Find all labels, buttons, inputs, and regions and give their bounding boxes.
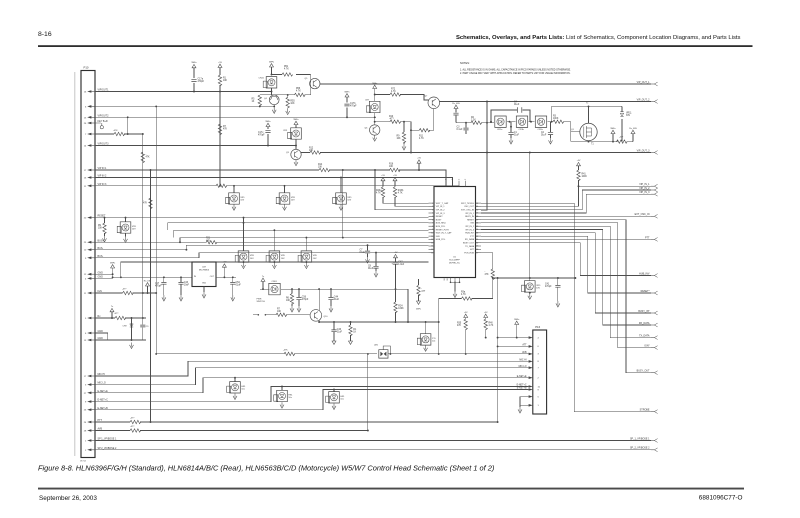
svg-text:100K: 100K [582,176,588,178]
svg-text:BUSY_OUT: BUSY_OUT [463,243,475,245]
svg-text:19: 19 [476,246,478,248]
svg-text:BUSY_IN: BUSY_IN [465,216,474,218]
svg-text:32: 32 [476,203,478,205]
svg-text:1.0uF: 1.0uF [398,264,404,266]
svg-text:0.1uF: 0.1uF [457,129,463,131]
svg-text:Figure 8-8. HLN6396F/G/H (Stan: Figure 8-8. HLN6396F/G/H (Standard), HLN… [38,463,495,472]
svg-text:+5V: +5V [218,62,222,64]
svg-text:RX_DATA: RX_DATA [465,238,475,241]
svg-text:3: 3 [432,209,433,211]
svg-text:4.7K: 4.7K [489,325,494,327]
svg-text:01uF: 01uF [514,104,520,106]
svg-text:VIP_IN_1: VIP_IN_1 [436,206,446,208]
svg-text:GND: GND [98,276,104,279]
svg-text:MIC HI: MIC HI [519,360,527,362]
svg-text:8-16: 8-16 [38,31,52,38]
svg-text:20: 20 [476,242,478,244]
svg-text:AVB: AVB [522,351,527,354]
svg-text:GND: GND [98,337,104,340]
svg-text:TX_DATA: TX_DATA [465,245,475,248]
svg-text:VIP/OUT1: VIP/OUT1 [98,89,110,92]
svg-text:17: 17 [476,252,478,254]
svg-text:-47?: -47? [389,119,394,121]
svg-text:VIP_IN_3: VIP_IN_3 [465,229,475,231]
svg-text:IGN: IGN [436,236,440,238]
svg-text:WDT_TICKLE: WDT_TICKLE [461,203,475,205]
svg-text:1K: 1K [353,332,356,334]
svg-text:RESET_FLTR: RESET_FLTR [436,229,449,231]
svg-text:01uF: 01uF [368,268,374,270]
svg-text:Rx_IGN: Rx_IGN [629,128,637,130]
svg-text:IGN: IGN [98,290,103,293]
svg-text:E-NET+C: E-NET+C [98,399,109,402]
svg-text:25: 25 [476,226,478,228]
svg-text:10V: 10V [313,258,317,260]
svg-text:4.7K: 4.7K [296,91,301,93]
svg-text:VIP_IN_3: VIP_IN_3 [639,191,650,194]
svg-text:6881096C77-O: 6881096C77-O [699,494,743,501]
svg-text:HUB_INT: HUB_INT [465,233,475,235]
svg-text:10V: 10V [240,200,244,202]
svg-text:VIP_IN_1: VIP_IN_1 [639,183,650,186]
svg-text:CR41: CR41 [259,78,265,80]
svg-text:GND: GND [98,271,104,274]
svg-text:14: 14 [431,246,433,248]
svg-text:BUSY_IN*: BUSY_IN* [638,310,649,313]
svg-text:01uF: 01uF [334,299,340,301]
svg-text:SC1449FP: SC1449FP [449,260,460,262]
svg-text:10K: 10K [98,228,103,230]
svg-text:2.2K: 2.2K [471,120,476,122]
svg-text:47K: 47K [146,157,151,159]
svg-text:29: 29 [476,213,478,215]
svg-text:47K: 47K [223,129,228,131]
svg-text:10K: 10K [286,300,291,302]
svg-text:13: 13 [431,242,433,244]
svg-text:CR1a: CR1a [497,129,503,131]
svg-text:4.7K: 4.7K [376,193,381,195]
svg-text:8: 8 [432,226,433,228]
svg-text:VIP_OUT_1: VIP_OUT_1 [637,81,651,84]
svg-text:5MFx: 5MFx [416,309,421,311]
svg-text:SP_1_VF/BOSE 1: SP_1_VF/BOSE 1 [630,437,650,440]
svg-text:RX_DATA: RX_DATA [639,322,650,325]
svg-text:IGN*: IGN* [644,345,649,348]
svg-text:SP 1_VF/BOSE 1: SP 1_VF/BOSE 1 [98,438,117,441]
svg-text:BUS-: BUS- [98,255,104,258]
svg-text:BUS-: BUS- [98,247,104,250]
svg-text:11: 11 [431,236,433,238]
svg-text:10K: 10K [309,150,314,152]
svg-text:SP 2_VF/BOSE 2: SP 2_VF/BOSE 2 [98,447,117,450]
svg-text:PTT: PTT [645,236,650,239]
svg-text:VIP_OUT_2: VIP_OUT_2 [637,98,651,101]
svg-text:01uF: 01uF [236,285,242,287]
svg-text:+5V: +5V [223,262,227,264]
svg-text:470pF: 470pF [258,135,265,137]
svg-text:OSC_OUT: OSC_OUT [464,206,475,208]
svg-text:VIP_IN_1: VIP_IN_1 [465,213,475,215]
svg-text:21: 21 [476,239,478,241]
svg-text:470pF: 470pF [350,106,357,108]
svg-text:STROBE: STROBE [640,409,650,412]
svg-text:EXT_OSC_IN: EXT_OSC_IN [635,213,650,216]
svg-text:-47?: -47? [122,289,127,291]
svg-text:22: 22 [476,236,478,238]
svg-text:47K: 47K [457,325,462,327]
svg-text:10V: 10V [132,229,136,231]
svg-text:KEY B+/F: KEY B+/F [98,120,109,123]
svg-text:VIP_OUT_3: VIP_OUT_3 [637,149,651,152]
svg-text:SP_2_VF/BOSE 2: SP_2_VF/BOSE 2 [630,447,650,450]
svg-text:+5V: +5V [464,312,468,314]
svg-text:10K: 10K [397,138,402,140]
svg-text:ATT: ATT [522,344,527,347]
svg-text:VIP IN 3: VIP IN 3 [98,183,108,186]
svg-text:BUSY: BUSY [436,219,442,221]
svg-text:E-NET+E: E-NET+E [98,390,109,393]
svg-text:BUS_REQ: BUS_REQ [436,223,446,225]
svg-text:4.7K: 4.7K [284,68,289,70]
svg-text:E-NET+E: E-NET+E [517,376,527,378]
svg-text:BUS_POL: BUS_POL [436,226,446,228]
svg-text:23: 23 [476,233,478,235]
svg-text:2. PART USAGE MAY VARY WITH AP: 2. PART USAGE MAY VARY WITH APPLICATION.… [460,72,571,75]
svg-text:IGN: IGN [470,223,474,225]
svg-text:+5V: +5V [417,158,421,160]
svg-text:10V: 10V [291,200,295,202]
svg-text:01uF: 01uF [541,135,547,137]
svg-text:4: 4 [432,213,433,215]
svg-text:1: 1 [432,203,433,205]
svg-text:P10: P10 [84,66,89,70]
svg-text:10V: 10V [536,288,540,290]
svg-text:24: 24 [476,229,478,231]
svg-text:MIC LO: MIC LO [519,366,527,368]
svg-text:WDT_T_CAP: WDT_T_CAP [436,202,449,205]
svg-text:10V: 10V [281,258,285,260]
svg-text:Schematics, Overlays, and Part: Schematics, Overlays, and Parts Lists: L… [456,35,741,41]
svg-text:10K: 10K [318,167,323,169]
svg-text:MIC HI: MIC HI [98,373,106,376]
svg-text:1. ALL RESISTANCE IS IN OHMS,: 1. ALL RESISTANCE IS IN OHMS, ALL CAPACI… [460,68,571,71]
svg-text:4.7K: 4.7K [461,294,466,296]
svg-text:+5V: +5V [381,175,385,177]
svg-text:01uF: 01uF [360,252,366,254]
svg-text:GND: GND [98,330,104,333]
svg-text:CR61: CR61 [272,281,278,283]
svg-text:7: 7 [432,223,433,225]
svg-text:RESET: RESET [467,219,475,221]
svg-text:01uF: 01uF [337,332,343,334]
svg-text:E-NET+B: E-NET+B [517,388,527,390]
svg-text:VIP_IN_3: VIP_IN_3 [436,213,446,215]
svg-text:VIP_IN_2: VIP_IN_2 [465,226,475,228]
svg-text:18: 18 [476,249,478,251]
svg-text:100K: 100K [398,308,404,310]
svg-text:VIP IN 2: VIP IN 2 [98,175,108,178]
svg-text:P16: P16 [535,325,540,329]
svg-text:15: 15 [431,249,433,251]
svg-text:10K: 10K [389,166,394,168]
svg-text:Rx_IGN: Rx_IGN [452,103,460,105]
svg-text:08799L-XC: 08799L-XC [449,263,460,265]
svg-text:12: 12 [431,239,433,241]
svg-text:2: 2 [432,206,433,208]
svg-text:-47K: -47K [283,350,288,352]
svg-text:9: 9 [432,229,433,231]
svg-text:NOTES:: NOTES: [460,61,470,65]
svg-text:10V: 10V [250,258,254,260]
svg-text:WDT_IN_T_CAP: WDT_IN_T_CAP [436,232,452,235]
svg-text:MDRA: MDRA [80,460,87,463]
svg-text:+5V: +5V [577,160,581,162]
svg-text:BUSY_OUT: BUSY_OUT [637,370,650,373]
svg-text:10K: 10K [290,103,295,105]
svg-text:10K: 10K [223,80,228,82]
svg-text:10: 10 [431,233,433,235]
svg-text:31: 31 [476,206,478,208]
svg-text:CR1b: CR1b [519,129,525,131]
svg-text:SWITCH: SWITCH [257,301,266,303]
svg-text:CR2a: CR2a [538,129,544,131]
svg-text:E-NET+B: E-NET+B [98,407,109,410]
svg-text:16: 16 [431,252,433,254]
svg-text:AVB: AVB [98,428,103,431]
svg-text:VIP/OUT2: VIP/OUT2 [98,114,110,117]
svg-text:TX_DATA: TX_DATA [639,335,650,338]
svg-text:-47?: -47? [114,313,119,315]
svg-text:1K: 1K [252,101,255,103]
svg-text:470pF: 470pF [545,286,552,288]
svg-text:4.7K: 4.7K [419,138,424,140]
svg-text:100K: 100K [553,118,559,120]
svg-text:27: 27 [476,219,478,221]
svg-text:01uF: 01uF [514,135,520,137]
svg-text:6: 6 [432,219,433,221]
svg-text:MC78M05: MC78M05 [199,270,210,272]
svg-text:PTT: PTT [98,419,103,422]
svg-text:RESET*: RESET* [641,290,650,293]
svg-text:10K: 10K [277,311,282,313]
svg-text:VIP IN 1: VIP IN 1 [98,167,108,170]
svg-text:HUB_INV: HUB_INV [639,272,650,275]
svg-text:470pF: 470pF [198,81,205,83]
svg-text:POS_HUB: POS_HUB [464,252,474,254]
svg-text:September 26, 2003: September 26, 2003 [39,495,97,502]
svg-text:33V: 33V [626,115,631,117]
svg-text:EXT_OSC_IN: EXT_OSC_IN [461,210,474,212]
svg-text:47K: 47K [143,203,148,205]
svg-text:RESET: RESET [436,216,444,218]
svg-text:470pF: 470pF [155,286,162,288]
svg-text:-47?: -47? [130,426,135,428]
svg-text:VIP_IN_2: VIP_IN_2 [639,187,650,190]
svg-text:30: 30 [476,209,478,211]
svg-text:E-NET+C: E-NET+C [517,385,527,387]
svg-text:+5V: +5V [394,252,398,254]
svg-text:10uF: 10uF [184,285,190,287]
svg-text:4.7K: 4.7K [398,193,403,195]
svg-text:5: 5 [432,216,433,218]
svg-text:26: 26 [476,223,478,225]
svg-text:+5V: +5V [484,312,488,314]
svg-text:10V: 10V [347,200,351,202]
svg-text:MIC LO: MIC LO [98,382,106,385]
svg-text:28: 28 [476,216,478,218]
svg-text:+5V: +5V [393,175,397,177]
svg-text:Tx: Tx [586,103,588,105]
svg-text:-47?: -47? [130,418,135,420]
svg-text:4.7K: 4.7K [391,91,396,93]
svg-text:HUB_POL: HUB_POL [436,239,446,241]
svg-text:VIP_IN_2: VIP_IN_2 [436,210,446,212]
svg-text:470pF: 470pF [302,299,309,301]
svg-text:GND: GND [202,283,207,285]
svg-text:47K: 47K [206,240,211,242]
svg-text:47K: 47K [485,274,490,276]
svg-text:VIP/OUT3: VIP/OUT3 [98,143,110,146]
svg-text:-47K: -47K [113,130,118,132]
